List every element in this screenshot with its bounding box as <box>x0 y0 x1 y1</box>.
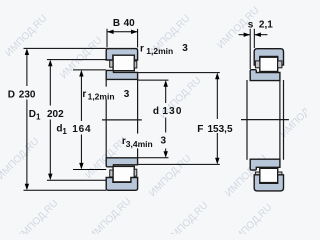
bore line right lower <box>137 149 139 158</box>
outer ring upper section <box>106 49 137 60</box>
cage bar upper right right view <box>278 61 282 68</box>
svg-text:3: 3 <box>182 43 188 54</box>
inner ring lower section <box>106 158 137 167</box>
dim B arrowhead left <box>107 30 114 34</box>
dim F extension line bottom <box>138 163 220 165</box>
dim d1 extension line top <box>73 69 106 71</box>
svg-text:F: F <box>197 124 203 135</box>
dim B extension line right <box>137 29 139 48</box>
svg-text:153,5: 153,5 <box>208 124 233 135</box>
svg-text:r: r <box>82 89 86 100</box>
dim D1 line upper segment <box>49 66 51 106</box>
bore line left lower <box>105 100 107 158</box>
cage bar lower right right view <box>278 172 282 179</box>
dim d arrowhead up <box>164 80 168 87</box>
dim D1 arrowhead down <box>48 174 52 181</box>
dim D1 line lower segment <box>49 120 51 175</box>
dim D extension line top <box>24 47 107 49</box>
axis line left view <box>103 119 142 121</box>
dim s arrow line left <box>239 34 250 36</box>
svg-text:D: D <box>8 90 15 101</box>
svg-text:1: 1 <box>36 112 41 121</box>
dim d arrowhead down <box>164 151 168 158</box>
svg-text:3,4min: 3,4min <box>126 139 153 149</box>
dim d extension line bottom <box>138 157 168 159</box>
dim B arrowhead right <box>131 30 138 34</box>
dim s extension line right <box>253 29 255 48</box>
dim F line upper segment <box>216 79 218 119</box>
dim D arrowhead up <box>25 48 29 55</box>
cage bar lower right <box>134 169 137 176</box>
roller upper right view <box>260 57 278 71</box>
svg-text:164: 164 <box>72 124 91 135</box>
dim s extension line left <box>249 29 251 69</box>
roller lower right view <box>260 168 278 182</box>
outer ring upper section right view <box>254 49 283 65</box>
svg-text:130: 130 <box>162 106 182 117</box>
dim s arrow line right <box>255 34 268 36</box>
inner ring lower section right view <box>250 159 280 170</box>
dim B extension line left <box>106 29 108 48</box>
bore line left upper <box>105 79 107 86</box>
dim d1 arrowhead down <box>79 163 83 170</box>
svg-text:1: 1 <box>62 127 67 136</box>
roller lower <box>113 166 134 182</box>
svg-text:2,1: 2,1 <box>259 20 273 31</box>
outer ring lower section <box>106 178 137 191</box>
dim d1 line upper segment <box>80 76 82 121</box>
dim F arrowhead down <box>215 158 219 165</box>
dim d1 extension line bottom <box>73 169 106 171</box>
dim D line lower segment <box>26 100 28 185</box>
cage bar upper right <box>134 61 137 68</box>
svg-text:s: s <box>248 20 254 31</box>
svg-text:202: 202 <box>47 109 64 120</box>
dim d line segment 1 <box>165 86 167 103</box>
bore line right upper <box>137 79 139 133</box>
dim s arrowhead right <box>254 33 261 37</box>
dim D line upper segment <box>26 55 28 87</box>
bore column inner right line right view <box>279 81 281 160</box>
svg-text:B: B <box>113 18 120 29</box>
bore column outer right line right view <box>283 81 285 160</box>
dim F arrowhead up <box>215 73 219 80</box>
svg-text:1,2min: 1,2min <box>146 46 173 56</box>
cage bar upper left <box>110 60 113 67</box>
cage bar upper left right view <box>255 61 259 68</box>
svg-text:3: 3 <box>124 89 130 100</box>
dim D extension line bottom <box>24 189 107 191</box>
axis line right view <box>242 119 289 121</box>
dim F extension line top <box>138 72 220 74</box>
dim D1 extension line bottom <box>47 179 106 181</box>
dim s arrowhead left <box>244 33 251 37</box>
dim B line <box>107 31 138 33</box>
svg-text:40: 40 <box>124 18 136 29</box>
inner ring upper section <box>106 70 137 79</box>
svg-text:230: 230 <box>19 90 36 101</box>
dim D1 arrowhead up <box>48 60 52 67</box>
dim d line segment 2 <box>165 118 167 133</box>
dim F line lower segment <box>216 133 218 158</box>
outer ring lower section right view <box>254 175 283 191</box>
svg-text:3: 3 <box>161 136 167 147</box>
dim D arrowhead down <box>25 184 29 191</box>
cage bar lower left <box>110 170 113 177</box>
roller upper <box>113 55 134 70</box>
cage bar lower left right view <box>255 172 259 179</box>
svg-text:D: D <box>29 109 36 120</box>
svg-text:d: d <box>153 106 159 117</box>
dim D1 extension line top <box>47 59 106 61</box>
dim d extension line top <box>138 79 168 81</box>
dim d line segment 3 <box>165 149 167 152</box>
svg-text:r: r <box>140 44 144 55</box>
dim d1 arrowhead up <box>79 70 83 77</box>
dim d1 line lower segment <box>80 135 82 164</box>
svg-text:1,2min: 1,2min <box>88 92 115 102</box>
bore column left line right view <box>246 81 248 160</box>
inner ring upper section right view <box>250 70 280 81</box>
